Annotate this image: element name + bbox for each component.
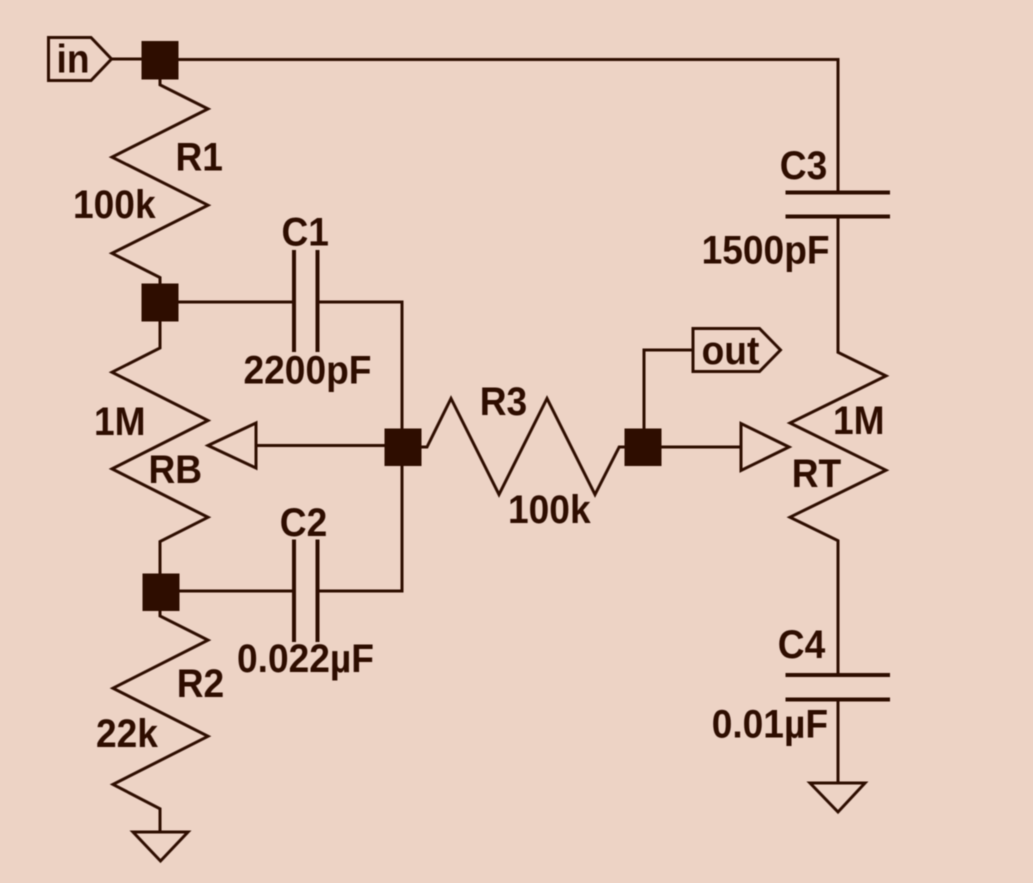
resistor RB [112,321,208,574]
wire C3 to RT [837,217,840,348]
wiper arrow of RT [741,424,789,471]
node B [142,284,179,322]
wire C4 to ground [837,700,840,784]
node A [142,41,179,80]
svg-text:RT: RT [792,452,841,496]
svg-text:C2: C2 [280,501,327,545]
port out [693,329,781,372]
wire C2 right to node D [318,466,403,591]
wire node A to C3 top [178,60,838,193]
capacitor C1 [294,252,318,350]
wire RT to C4 [837,546,840,675]
svg-text:R2: R2 [177,662,224,706]
svg-text:R1: R1 [176,135,223,179]
wire in to node A [112,58,143,61]
port in [49,38,112,81]
wire RB wiper to node D [256,444,384,447]
svg-text:22k: 22k [96,712,159,756]
capacitor C4 [788,675,889,700]
resistor R2 [113,611,208,833]
svg-text:2200pF: 2200pF [244,348,372,392]
node D [385,429,422,467]
svg-text:R3: R3 [480,380,527,424]
svg-text:100k: 100k [73,183,156,227]
svg-text:100k: 100k [508,488,591,532]
svg-text:1M: 1M [94,400,146,444]
ground below R2 [133,832,188,861]
svg-text:RB: RB [149,448,203,492]
wire C1 right to node D [318,302,403,428]
wire node E to port out [644,350,693,428]
svg-text:in: in [57,38,90,82]
node C [143,574,180,612]
capacitor C3 [788,193,889,217]
ground below C4 [810,783,865,812]
capacitor C2 [294,542,318,641]
svg-text:0.022µF: 0.022µF [237,637,374,681]
svg-text:1M: 1M [833,399,885,443]
svg-text:C1: C1 [282,210,329,254]
svg-text:out: out [702,329,760,373]
wire node E to RT wiper arrow [662,446,741,449]
svg-text:C3: C3 [780,144,827,188]
resistor R1 [112,78,208,285]
resistor R3 [422,399,624,495]
svg-text:1500pF: 1500pF [702,228,830,272]
node E [625,429,662,467]
resistor RT [790,347,886,546]
wiper arrow of RB [208,423,256,468]
wire node B to C1 left plate [179,301,295,304]
wire node C to C2 left plate [180,590,294,593]
svg-text:0.01µF: 0.01µF [712,702,828,746]
svg-text:C4: C4 [778,623,826,667]
